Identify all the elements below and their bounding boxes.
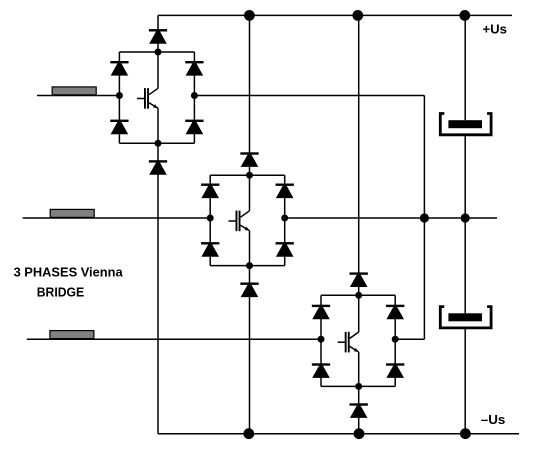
svg-text:–Us: –Us	[481, 412, 506, 427]
svg-text:BRIDGE: BRIDGE	[37, 284, 85, 299]
svg-text:+Us: +Us	[483, 22, 508, 37]
svg-text:3 PHASES Vienna: 3 PHASES Vienna	[14, 265, 124, 280]
